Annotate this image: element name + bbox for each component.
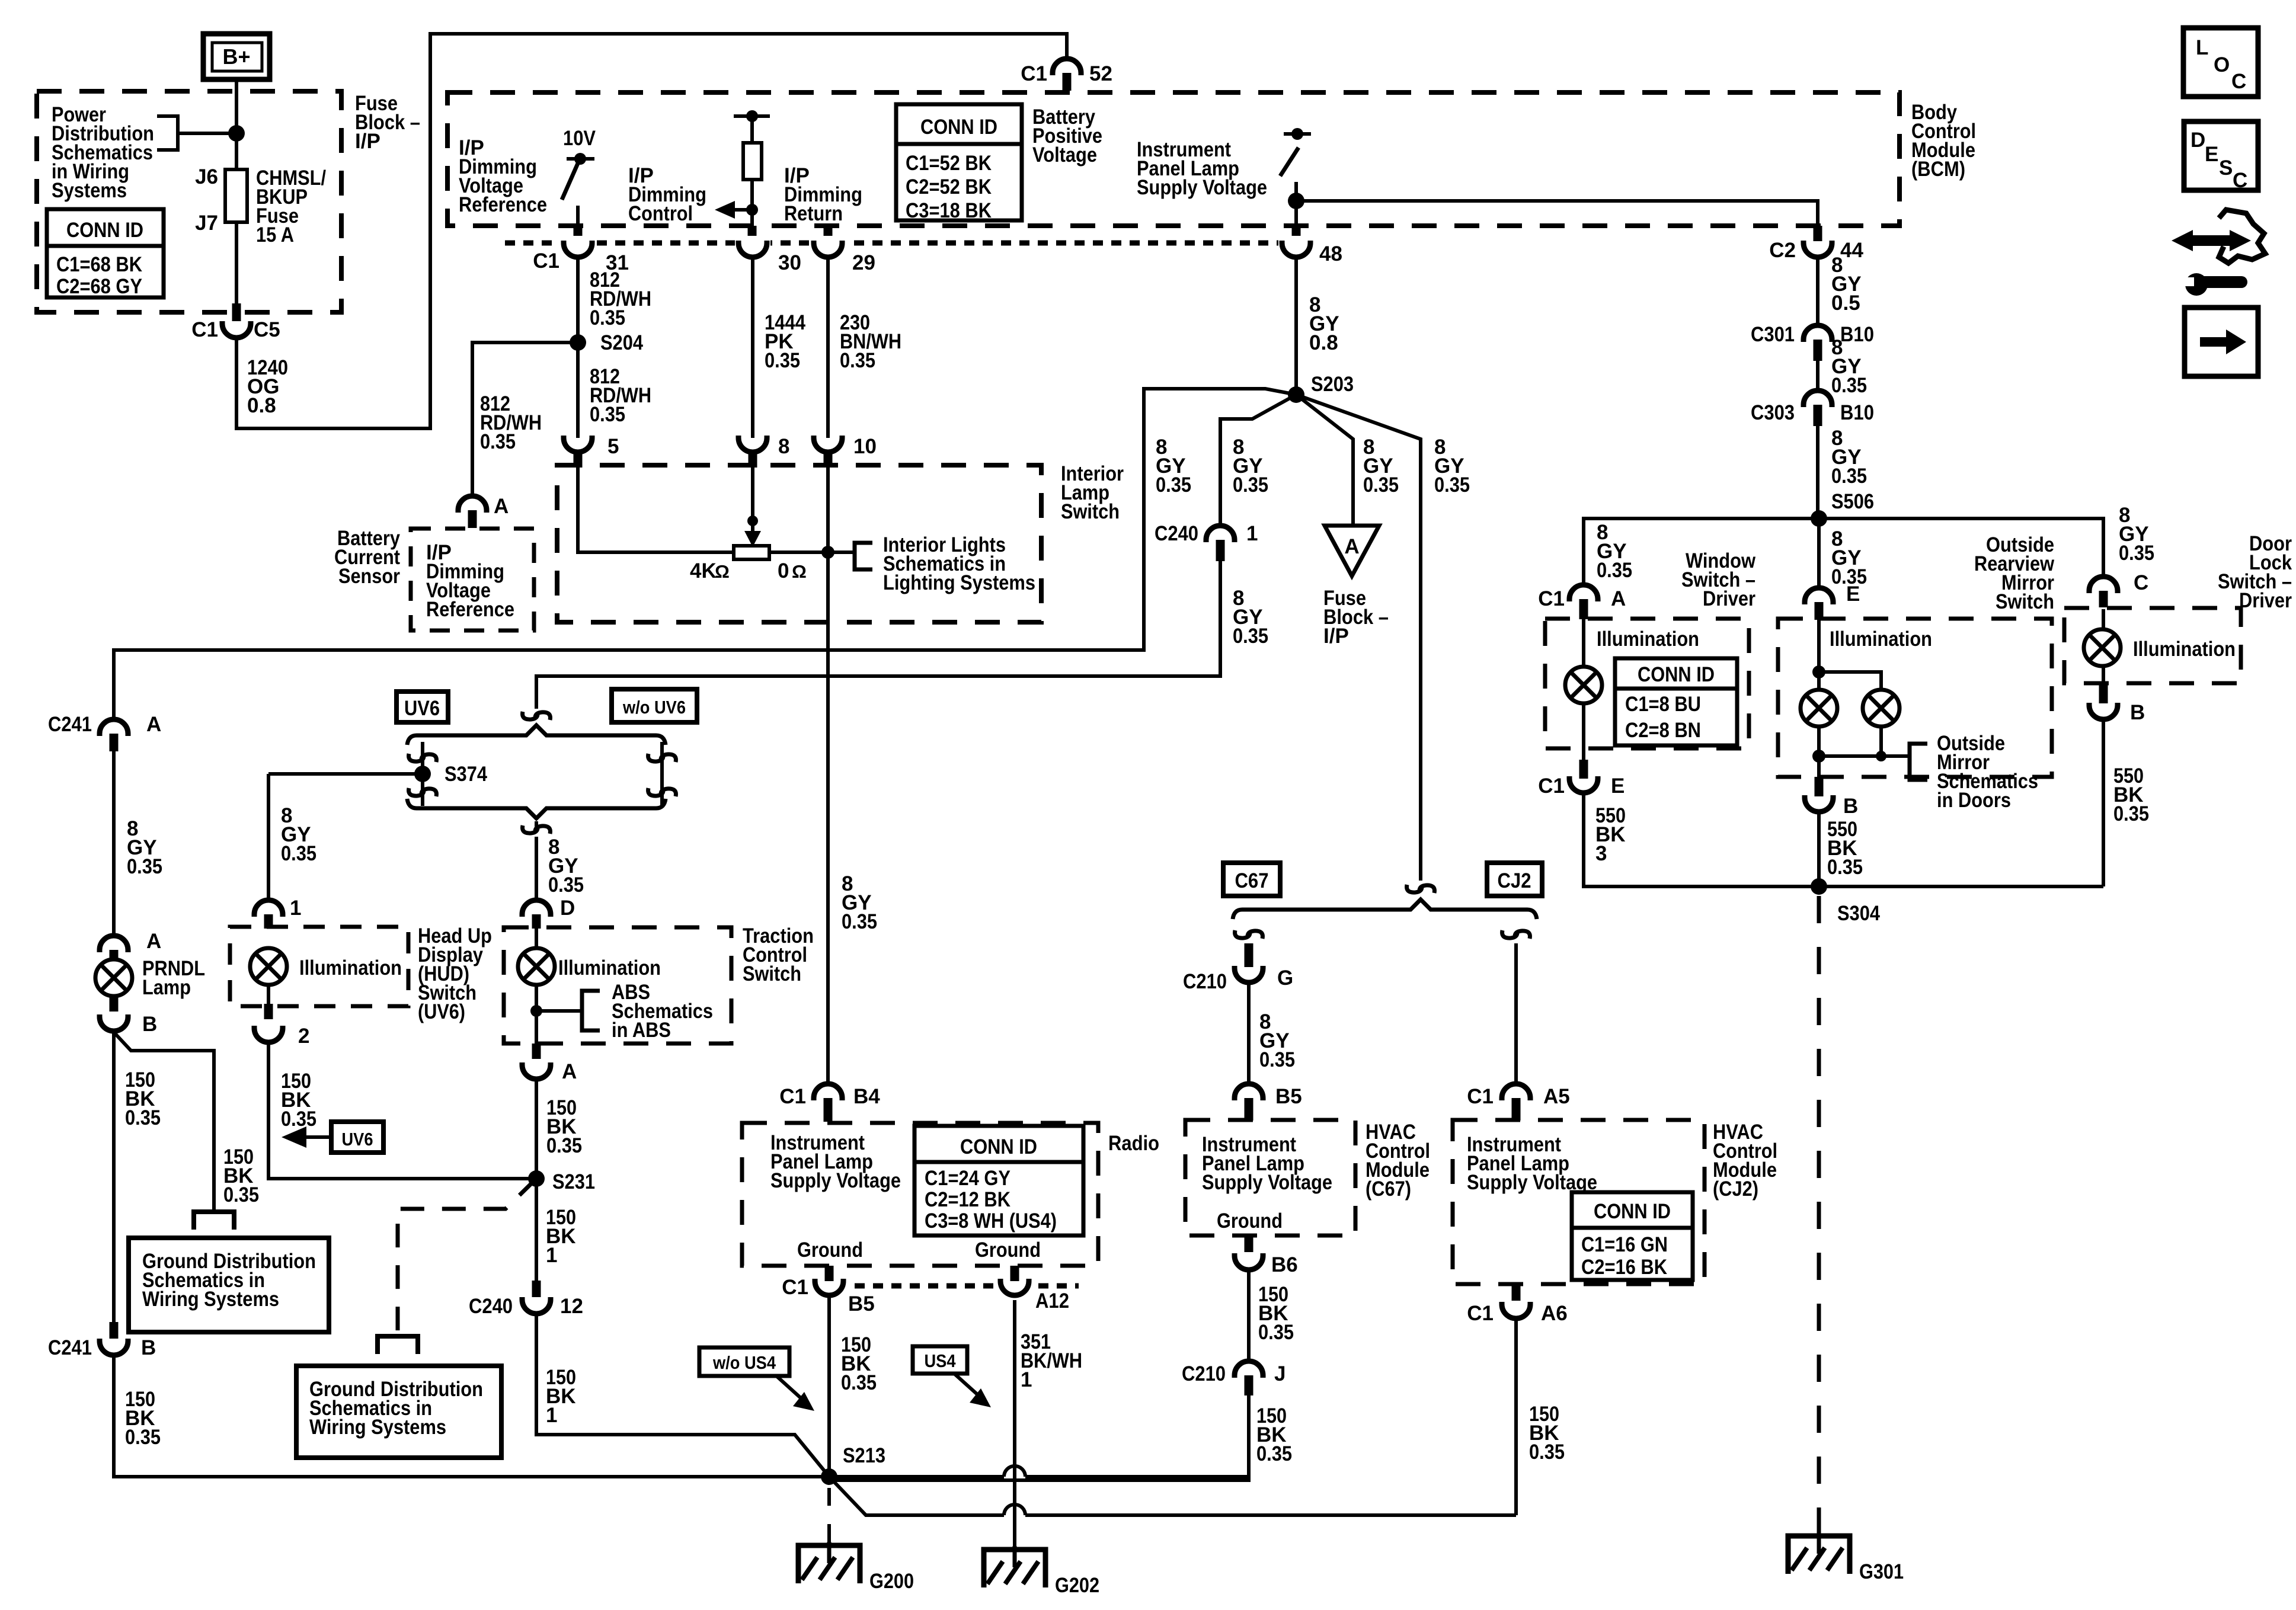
svg-text:D: D: [2191, 129, 2205, 152]
svg-text:0.35: 0.35: [1258, 1321, 1294, 1344]
svg-text:in ABS: in ABS: [612, 1019, 671, 1042]
svg-text:0.35: 0.35: [281, 842, 316, 865]
svg-text:0.35: 0.35: [2113, 802, 2149, 825]
svg-text:C2: C2: [1769, 239, 1796, 262]
svg-text:0.35: 0.35: [1434, 473, 1470, 497]
svg-text:Reference: Reference: [459, 193, 547, 216]
svg-text:C1: C1: [1538, 774, 1565, 798]
svg-text:G301: G301: [1859, 1560, 1904, 1583]
svg-text:8: 8: [778, 435, 789, 458]
svg-text:30: 30: [778, 251, 801, 274]
svg-text:C1=52 BK: C1=52 BK: [906, 152, 992, 175]
svg-text:0.35: 0.35: [1363, 473, 1399, 497]
svg-text:Return: Return: [784, 202, 843, 225]
svg-text:C1: C1: [782, 1276, 808, 1299]
svg-text:0.35: 0.35: [1233, 473, 1268, 497]
svg-text:C240: C240: [469, 1295, 513, 1318]
svg-text:B: B: [2130, 701, 2145, 724]
svg-text:B: B: [141, 1336, 156, 1359]
svg-text:52: 52: [1089, 62, 1112, 85]
svg-text:0.35: 0.35: [1256, 1442, 1292, 1465]
svg-text:G202: G202: [1055, 1574, 1099, 1597]
svg-text:L: L: [2196, 36, 2208, 59]
svg-text:44: 44: [1840, 239, 1863, 262]
svg-text:0.8: 0.8: [1309, 331, 1338, 354]
svg-text:A: A: [1611, 587, 1626, 610]
svg-text:C1: C1: [533, 249, 559, 273]
svg-text:S203: S203: [1311, 373, 1354, 396]
svg-text:US4: US4: [925, 1350, 957, 1371]
svg-text:0: 0: [778, 559, 789, 582]
svg-text:Switch: Switch: [743, 962, 801, 985]
svg-text:C240: C240: [1155, 522, 1198, 545]
svg-text:0.35: 0.35: [840, 349, 875, 372]
svg-text:S: S: [2219, 156, 2233, 180]
svg-text:A: A: [146, 930, 161, 953]
svg-text:C3=18 BK: C3=18 BK: [906, 199, 992, 222]
svg-text:C: C: [2233, 169, 2247, 192]
svg-text:C1: C1: [191, 318, 218, 341]
svg-text:UV6: UV6: [404, 697, 440, 720]
svg-text:Illumination: Illumination: [299, 956, 402, 980]
svg-text:S204: S204: [600, 331, 643, 354]
svg-text:B: B: [1843, 795, 1858, 818]
svg-text:C1=24 GY: C1=24 GY: [925, 1167, 1011, 1190]
svg-text:29: 29: [852, 251, 875, 274]
svg-text:B5: B5: [1275, 1085, 1302, 1108]
svg-text:Switch: Switch: [1996, 590, 2054, 613]
svg-text:0.35: 0.35: [127, 855, 162, 878]
svg-text:B5: B5: [848, 1292, 875, 1315]
svg-text:B6: B6: [1271, 1253, 1298, 1276]
svg-text:5: 5: [607, 435, 619, 458]
svg-text:I/P: I/P: [355, 130, 380, 153]
svg-text:UV6: UV6: [342, 1129, 373, 1150]
svg-text:Supply Voltage: Supply Voltage: [1202, 1171, 1332, 1194]
svg-text:Illumination: Illumination: [1597, 628, 1699, 651]
svg-text:Driver: Driver: [2239, 589, 2292, 612]
svg-text:C301: C301: [1751, 323, 1795, 346]
svg-text:C: C: [2134, 571, 2148, 594]
svg-text:Driver: Driver: [1703, 587, 1755, 610]
svg-text:Voltage: Voltage: [1032, 143, 1097, 167]
svg-text:1: 1: [546, 1404, 557, 1427]
svg-text:10: 10: [853, 435, 877, 458]
svg-text:C1=16 GN: C1=16 GN: [1581, 1233, 1668, 1256]
svg-text:Systems: Systems: [52, 179, 127, 202]
svg-text:0.35: 0.35: [1156, 473, 1191, 497]
svg-text:A: A: [562, 1060, 577, 1083]
svg-text:B10: B10: [1840, 401, 1874, 424]
svg-text:w/o UV6: w/o UV6: [622, 697, 686, 718]
svg-text:Lighting Systems: Lighting Systems: [883, 571, 1035, 594]
svg-text:0.35: 0.35: [1529, 1441, 1565, 1464]
svg-text:Ω: Ω: [792, 561, 807, 582]
svg-text:0.35: 0.35: [1259, 1048, 1295, 1071]
svg-text:C2=8 BN: C2=8 BN: [1625, 719, 1701, 742]
svg-text:A12: A12: [1035, 1289, 1069, 1313]
svg-text:Radio: Radio: [1108, 1132, 1159, 1155]
svg-text:(UV6): (UV6): [418, 1000, 465, 1023]
svg-text:0.35: 0.35: [1827, 856, 1863, 879]
svg-text:0.8: 0.8: [247, 394, 276, 417]
svg-text:B+: B+: [222, 44, 250, 69]
svg-text:0.35: 0.35: [1597, 559, 1632, 582]
svg-text:Wiring Systems: Wiring Systems: [142, 1288, 279, 1311]
svg-text:G: G: [1277, 966, 1293, 990]
svg-text:0.5: 0.5: [1831, 292, 1860, 315]
svg-text:Ground: Ground: [797, 1238, 863, 1262]
svg-text:in Doors: in Doors: [1937, 789, 2011, 812]
svg-text:S213: S213: [843, 1444, 885, 1467]
svg-text:CONN ID: CONN ID: [1638, 663, 1715, 686]
svg-text:G200: G200: [869, 1570, 914, 1593]
svg-text:0.35: 0.35: [1233, 625, 1268, 648]
svg-text:Ground: Ground: [975, 1238, 1041, 1262]
svg-text:J6: J6: [195, 165, 218, 188]
svg-text:0.35: 0.35: [546, 1134, 582, 1157]
svg-text:C1: C1: [779, 1085, 806, 1108]
svg-text:J7: J7: [195, 212, 218, 235]
svg-text:1: 1: [546, 1244, 557, 1267]
svg-text:4K: 4K: [690, 559, 717, 582]
svg-text:Supply Voltage: Supply Voltage: [1137, 176, 1267, 199]
svg-text:C1: C1: [1467, 1085, 1494, 1108]
svg-text:1: 1: [1246, 522, 1258, 545]
svg-text:C3=8 WH (US4): C3=8 WH (US4): [925, 1209, 1057, 1233]
svg-text:(BCM): (BCM): [1911, 158, 1965, 181]
svg-text:0.35: 0.35: [590, 403, 625, 426]
svg-text:2: 2: [298, 1025, 309, 1048]
svg-text:S374: S374: [445, 763, 487, 786]
svg-text:C2=52 BK: C2=52 BK: [906, 175, 992, 199]
svg-text:w/o US4: w/o US4: [712, 1352, 776, 1373]
svg-text:CONN ID: CONN ID: [66, 219, 143, 242]
svg-text:A: A: [494, 495, 509, 518]
svg-text:Wiring Systems: Wiring Systems: [309, 1416, 446, 1439]
svg-text:3: 3: [1595, 842, 1607, 865]
svg-text:0.35: 0.35: [480, 430, 516, 453]
svg-text:C2=68 GY: C2=68 GY: [56, 275, 142, 298]
svg-text:S304: S304: [1837, 902, 1880, 925]
svg-text:Sensor: Sensor: [338, 565, 400, 588]
svg-text:C1: C1: [1021, 62, 1047, 85]
svg-text:C303: C303: [1751, 401, 1795, 424]
svg-text:J: J: [1274, 1362, 1285, 1385]
svg-text:Ground: Ground: [1217, 1209, 1283, 1233]
svg-text:B4: B4: [853, 1085, 880, 1108]
svg-text:C2=12 BK: C2=12 BK: [925, 1188, 1011, 1211]
svg-text:O: O: [2214, 53, 2230, 76]
svg-text:0.35: 0.35: [125, 1426, 161, 1449]
svg-text:A6: A6: [1541, 1302, 1568, 1325]
svg-text:C241: C241: [48, 713, 92, 736]
svg-text:C1: C1: [1467, 1302, 1494, 1325]
svg-text:Lamp: Lamp: [142, 976, 191, 999]
svg-text:C241: C241: [48, 1336, 92, 1359]
svg-text:(C67): (C67): [1366, 1177, 1411, 1201]
svg-text:Reference: Reference: [426, 598, 514, 621]
svg-text:A5: A5: [1543, 1085, 1570, 1108]
svg-text:0.35: 0.35: [590, 306, 625, 329]
svg-text:Illumination: Illumination: [1830, 628, 1932, 651]
svg-text:0.35: 0.35: [765, 349, 800, 372]
svg-text:Control: Control: [628, 202, 693, 225]
svg-text:Illumination: Illumination: [558, 956, 661, 980]
svg-text:0.35: 0.35: [125, 1106, 161, 1129]
svg-text:C210: C210: [1183, 970, 1227, 993]
svg-text:CONN ID: CONN ID: [1594, 1200, 1671, 1223]
svg-text:S231: S231: [552, 1170, 595, 1193]
svg-text:C2=16 BK: C2=16 BK: [1581, 1256, 1667, 1279]
svg-text:Illumination: Illumination: [2133, 638, 2236, 661]
svg-text:C210: C210: [1182, 1362, 1226, 1385]
svg-text:CONN ID: CONN ID: [960, 1135, 1037, 1158]
svg-text:0.35: 0.35: [842, 910, 877, 933]
svg-text:1: 1: [1021, 1368, 1032, 1391]
svg-text:E: E: [2205, 143, 2218, 166]
svg-text:S506: S506: [1831, 490, 1874, 513]
svg-text:CONN ID: CONN ID: [920, 116, 997, 139]
svg-text:C5: C5: [254, 318, 280, 341]
svg-text:0.35: 0.35: [841, 1371, 877, 1394]
svg-text:(CJ2): (CJ2): [1713, 1177, 1758, 1201]
svg-text:48: 48: [1319, 242, 1342, 265]
svg-text:1: 1: [290, 897, 301, 920]
svg-text:0.35: 0.35: [1831, 374, 1867, 397]
svg-text:C67: C67: [1235, 869, 1269, 892]
svg-text:0.35: 0.35: [223, 1183, 259, 1206]
svg-text:0.35: 0.35: [2119, 542, 2154, 565]
svg-text:C1=8 BU: C1=8 BU: [1625, 693, 1701, 716]
svg-text:B10: B10: [1840, 323, 1874, 346]
svg-text:0.35: 0.35: [1831, 465, 1867, 488]
svg-text:15 A: 15 A: [256, 223, 294, 247]
svg-text:I/P: I/P: [1323, 625, 1349, 648]
svg-text:E: E: [1846, 582, 1860, 606]
svg-text:D: D: [560, 897, 575, 920]
svg-text:E: E: [1611, 774, 1625, 798]
svg-text:12: 12: [560, 1295, 583, 1318]
svg-text:0.35: 0.35: [281, 1108, 316, 1131]
svg-text:C1=68 BK: C1=68 BK: [56, 253, 142, 276]
svg-text:C1: C1: [1538, 587, 1565, 610]
svg-text:A: A: [1344, 535, 1359, 558]
svg-text:0.35: 0.35: [548, 873, 584, 897]
svg-text:A: A: [146, 713, 161, 736]
svg-text:Supply Voltage: Supply Voltage: [770, 1169, 901, 1192]
svg-text:Ω: Ω: [715, 561, 730, 582]
svg-text:10V: 10V: [563, 127, 596, 150]
svg-text:C: C: [2231, 70, 2246, 93]
svg-text:B: B: [142, 1013, 157, 1036]
svg-text:CJ2: CJ2: [1498, 869, 1531, 892]
svg-text:Switch: Switch: [1061, 500, 1120, 523]
